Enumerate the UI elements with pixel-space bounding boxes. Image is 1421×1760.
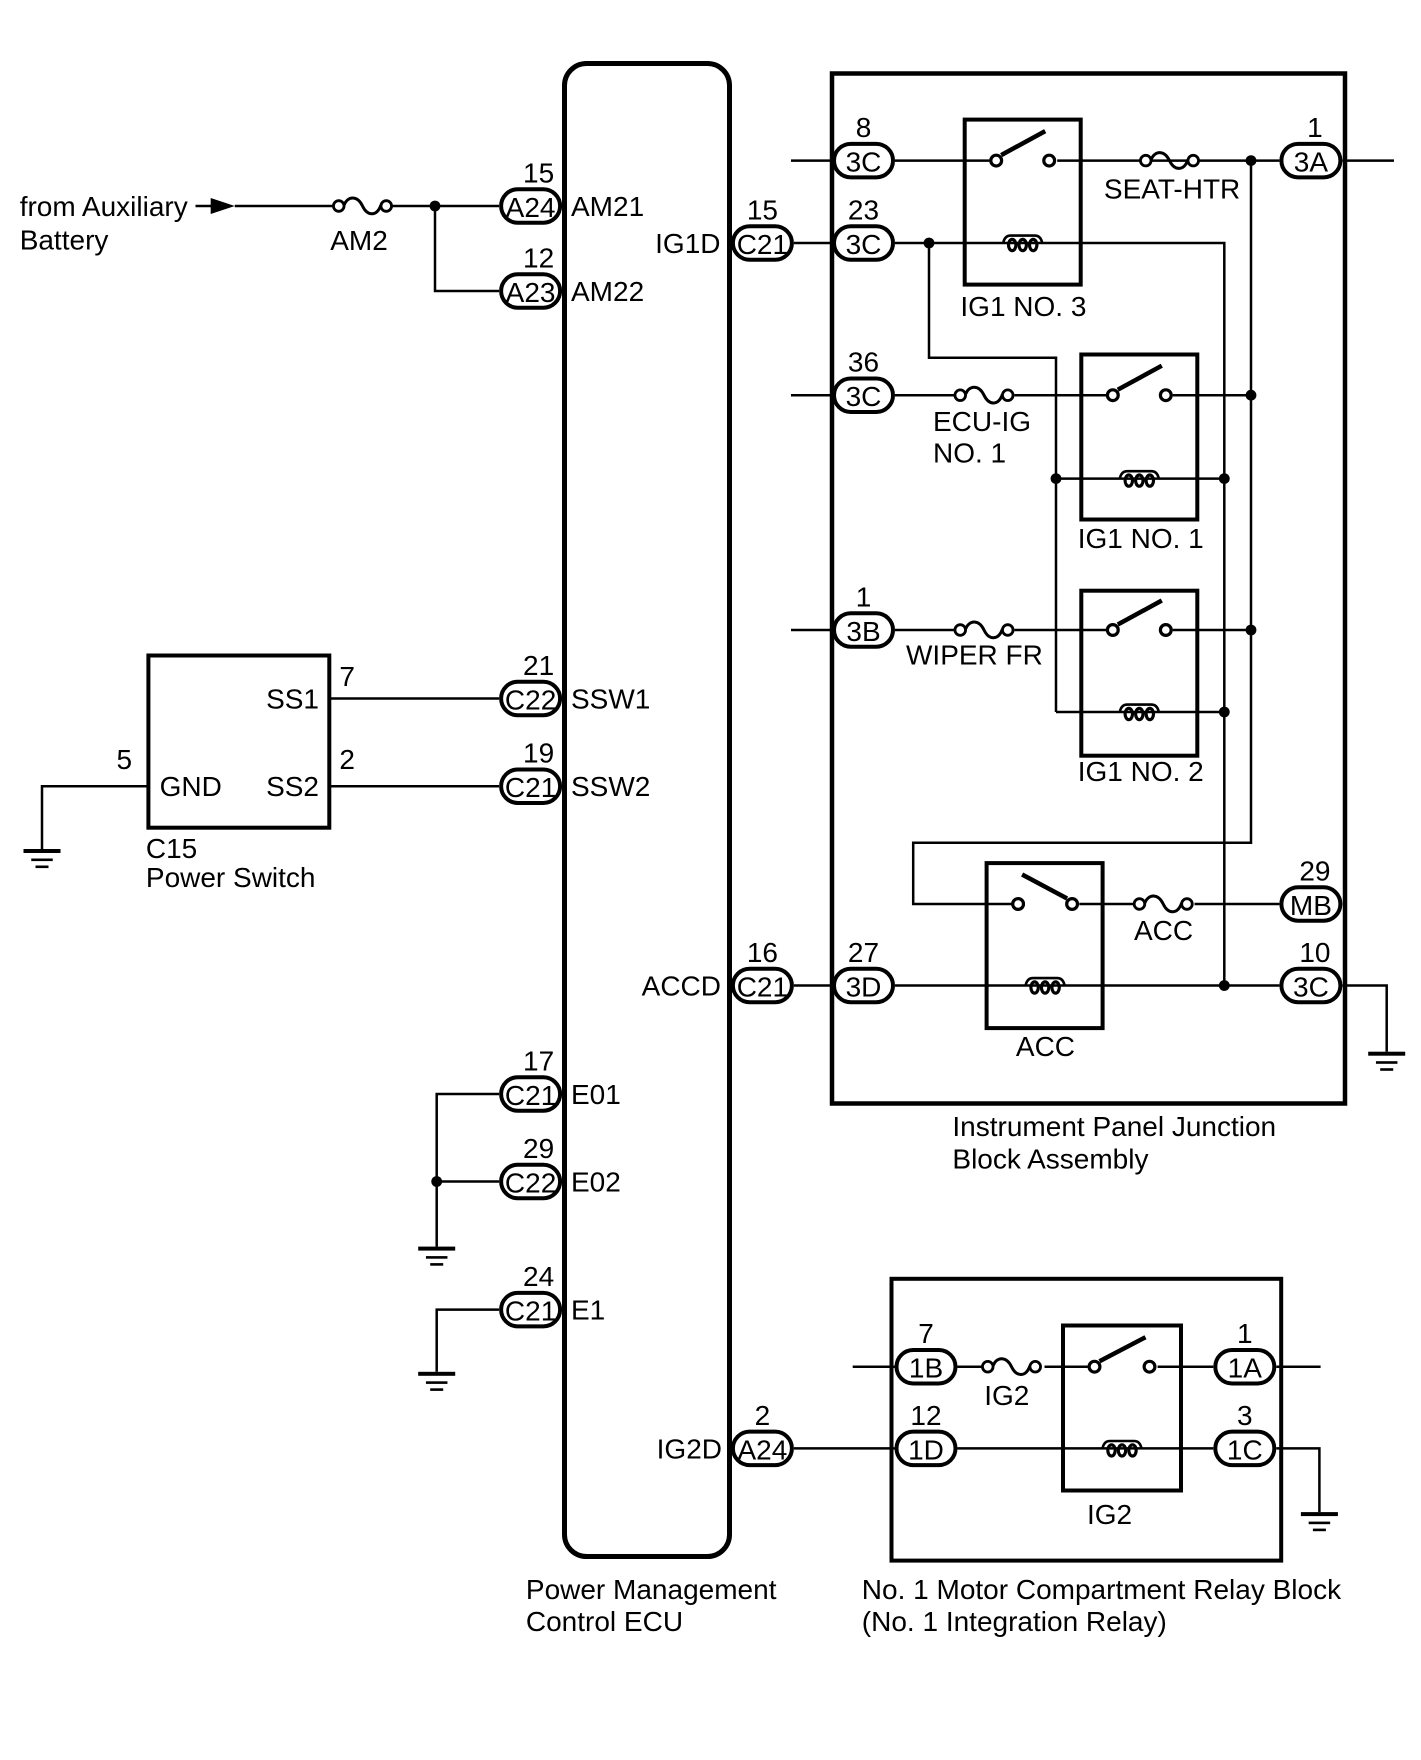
wire 1D to coil to 1C xyxy=(958,1447,1214,1450)
svg-text:Power Switch: Power Switch xyxy=(146,862,316,893)
instrument panel junction block box xyxy=(832,74,1345,1104)
svg-text:C21: C21 xyxy=(505,1080,556,1111)
svg-text:AM21: AM21 xyxy=(571,191,644,222)
relay IG1 NO.3 coil xyxy=(1003,236,1042,251)
svg-text:ACCD: ACCD xyxy=(642,971,721,1002)
svg-text:Instrument Panel Junction: Instrument Panel Junction xyxy=(952,1111,1276,1142)
svg-text:12: 12 xyxy=(523,243,554,274)
svg-text:A23: A23 xyxy=(506,277,556,308)
junction IG1 NO2 output xyxy=(1246,625,1257,636)
svg-text:C21: C21 xyxy=(505,1296,556,1327)
svg-text:E02: E02 xyxy=(571,1167,621,1198)
wire 3B to fuse WIPER FR xyxy=(895,629,954,632)
junction SEAT-HTR output xyxy=(1246,155,1257,166)
wire branch down to NO1 coil xyxy=(929,243,1056,712)
relay IG2 contacts xyxy=(1089,1337,1155,1372)
relay IG2 coil xyxy=(1103,1441,1142,1456)
wire IG1 NO1 out to vertical xyxy=(1173,394,1251,397)
svg-text:36: 36 xyxy=(848,347,879,378)
svg-text:(No. 1 Integration Relay): (No. 1 Integration Relay) xyxy=(862,1606,1167,1637)
junction coil chain at NO2 xyxy=(1219,707,1230,718)
connector C21 ACCD xyxy=(733,969,792,1003)
svg-text:15: 15 xyxy=(747,195,778,226)
connector 3C pin 23 xyxy=(834,226,893,260)
fuse IG2 xyxy=(982,1359,1040,1375)
svg-text:Battery: Battery xyxy=(20,225,109,256)
svg-text:3C: 3C xyxy=(846,381,882,412)
svg-text:1D: 1D xyxy=(908,1434,944,1465)
connector MB pin 29 xyxy=(1281,887,1340,921)
connector C22 E02 xyxy=(501,1165,560,1199)
svg-text:C21: C21 xyxy=(737,229,788,260)
relay IG1 NO.1 coil xyxy=(1120,471,1159,486)
wire IG1 NO2 out to vertical xyxy=(1173,629,1251,632)
wire switch-output vertical to ACC xyxy=(913,161,1251,904)
wire 3C36 to fuse ECU-IG xyxy=(895,394,954,397)
wire branch to connector A23 xyxy=(435,206,499,291)
svg-text:C21: C21 xyxy=(737,972,788,1003)
junction E01 E02 ground xyxy=(431,1176,442,1187)
connector 1B pin 7 xyxy=(897,1350,956,1384)
svg-text:15: 15 xyxy=(523,158,554,189)
wire relay to fuse SEAT-HTR to 3A xyxy=(1057,159,1279,162)
wire battery to fuse AM2 xyxy=(235,205,333,208)
svg-text:1: 1 xyxy=(1307,112,1323,143)
svg-text:IG2D: IG2D xyxy=(657,1433,722,1464)
wire 3D to ACC coil to 3C10 xyxy=(895,984,1279,987)
wire stub into 1B xyxy=(853,1365,895,1368)
svg-text:GND: GND xyxy=(160,771,222,802)
svg-text:5: 5 xyxy=(117,744,133,775)
svg-text:29: 29 xyxy=(1299,856,1330,887)
relay IG2 box xyxy=(1063,1326,1181,1491)
connector C21 SSW2 xyxy=(501,769,560,803)
svg-text:21: 21 xyxy=(523,650,554,681)
svg-text:SSW1: SSW1 xyxy=(571,684,650,715)
junction coil chain at ACC row xyxy=(1219,980,1230,991)
svg-text:7: 7 xyxy=(918,1318,934,1349)
svg-text:SSW2: SSW2 xyxy=(571,771,650,802)
wire NO1 coil row xyxy=(1056,477,1224,480)
svg-text:ACC: ACC xyxy=(1016,1031,1075,1062)
svg-text:3D: 3D xyxy=(846,972,882,1003)
ground power switch xyxy=(24,849,61,868)
fuse ECU-IG NO. 1 xyxy=(955,387,1013,403)
junction coil chain at NO1 xyxy=(1219,473,1230,484)
connector A23 AM22 xyxy=(501,274,560,308)
junction inner vertical at NO1 coil xyxy=(1051,473,1062,484)
svg-text:ACC: ACC xyxy=(1134,915,1193,946)
svg-text:3C: 3C xyxy=(1293,972,1329,1003)
svg-text:29: 29 xyxy=(523,1133,554,1164)
power management control ECU box xyxy=(565,64,730,1557)
relay ACC box xyxy=(987,863,1103,1028)
relay IG1 NO.1 contacts xyxy=(1107,366,1171,401)
wire 3C8 to relay contact xyxy=(895,159,989,162)
wire fuse to IG1 NO1 contact xyxy=(1015,394,1107,397)
svg-text:27: 27 xyxy=(848,937,879,968)
svg-text:No. 1 Motor Compartment Relay: No. 1 Motor Compartment Relay Block xyxy=(862,1574,1342,1605)
svg-text:3C: 3C xyxy=(846,229,882,260)
power switch C15 box xyxy=(148,656,329,828)
relay IG1 NO.3 contacts xyxy=(991,131,1055,166)
connector 1D pin 12 xyxy=(897,1432,956,1466)
svg-text:C22: C22 xyxy=(505,1168,556,1199)
relay IG1 NO.2 coil xyxy=(1120,705,1159,720)
connector 3D pin 27 xyxy=(834,969,893,1003)
svg-text:E1: E1 xyxy=(571,1295,605,1326)
connector C21 E01 xyxy=(501,1077,560,1111)
svg-text:IG1 NO. 3: IG1 NO. 3 xyxy=(960,291,1086,322)
svg-text:8: 8 xyxy=(856,112,872,143)
svg-text:2: 2 xyxy=(339,744,355,775)
svg-text:3B: 3B xyxy=(846,616,880,647)
svg-text:C22: C22 xyxy=(505,685,556,716)
wire E1 to ground xyxy=(437,1310,499,1372)
fuse AM2 xyxy=(333,198,391,214)
relay IG1 NO.2 box xyxy=(1081,591,1197,756)
junction IG1 NO1 output xyxy=(1246,390,1257,401)
wire ACCD C21 to 3D xyxy=(794,984,832,987)
svg-text:IG2: IG2 xyxy=(1087,1499,1132,1530)
relay IG1 NO.2 contacts xyxy=(1107,601,1171,636)
connector 3A pin 1 xyxy=(1281,144,1340,178)
relay IG1 NO.3 box xyxy=(965,120,1081,285)
svg-text:Power Management: Power Management xyxy=(526,1574,777,1605)
wire stub into 3C pin 8 xyxy=(791,159,832,162)
wire E01 to ground bus xyxy=(437,1094,499,1247)
svg-text:AM2: AM2 xyxy=(330,225,388,256)
svg-text:1A: 1A xyxy=(1228,1353,1263,1384)
svg-text:12: 12 xyxy=(910,1400,941,1431)
connector 3C pin 10 xyxy=(1281,969,1340,1003)
wire 3C10 to ground xyxy=(1342,986,1386,1052)
wire IG1D C21 to 3C23 xyxy=(794,242,832,245)
ground E01 E02 xyxy=(418,1247,455,1266)
svg-text:1: 1 xyxy=(856,582,872,613)
motor compartment relay block box xyxy=(892,1279,1282,1561)
arrow from auxiliary battery xyxy=(196,198,235,214)
ground 1C xyxy=(1301,1512,1338,1531)
svg-text:SS2: SS2 xyxy=(266,771,319,802)
svg-text:1C: 1C xyxy=(1227,1434,1263,1465)
connector 3B pin 1 xyxy=(834,613,893,647)
relay ACC coil xyxy=(1026,978,1065,993)
svg-text:16: 16 xyxy=(747,937,778,968)
svg-text:Block Assembly: Block Assembly xyxy=(952,1143,1148,1174)
connector 1C pin 3 xyxy=(1215,1432,1274,1466)
svg-text:17: 17 xyxy=(523,1046,554,1077)
relay IG1 NO.1 box xyxy=(1081,355,1197,520)
connector 3C pin 8 xyxy=(834,144,893,178)
svg-text:SS1: SS1 xyxy=(266,684,319,715)
wire SS2 to SSW2 xyxy=(329,785,499,788)
svg-text:IG1D: IG1D xyxy=(655,228,720,259)
wire fuse to IG1 NO2 contact xyxy=(1015,629,1107,632)
svg-text:NO. 1: NO. 1 xyxy=(933,437,1006,468)
connector C21 E1 xyxy=(501,1293,560,1327)
ground E1 xyxy=(418,1372,455,1391)
relay ACC contacts xyxy=(1013,875,1078,910)
svg-text:WIPER FR: WIPER FR xyxy=(906,640,1043,671)
svg-text:C15: C15 xyxy=(146,833,197,864)
svg-text:19: 19 xyxy=(523,738,554,769)
svg-text:from Auxiliary: from Auxiliary xyxy=(20,191,188,222)
svg-text:24: 24 xyxy=(523,1261,554,1292)
svg-text:IG1 NO. 1: IG1 NO. 1 xyxy=(1078,523,1204,554)
wire 3C23 to IG1 NO3 coil chain xyxy=(895,243,1224,986)
svg-text:1B: 1B xyxy=(909,1353,943,1384)
svg-text:IG2: IG2 xyxy=(984,1380,1029,1411)
wire fuse IG2 to relay contact xyxy=(1045,1365,1088,1368)
svg-text:C21: C21 xyxy=(505,772,556,803)
fuse WIPER FR xyxy=(955,622,1013,638)
connector C22 SSW1 xyxy=(501,682,560,716)
svg-text:2: 2 xyxy=(755,1400,771,1431)
svg-text:SEAT-HTR: SEAT-HTR xyxy=(1104,174,1240,205)
wire fuse ACC to MB xyxy=(1195,903,1280,906)
connector A24 IG2D xyxy=(733,1432,792,1466)
junction 3C23 branch xyxy=(924,238,935,249)
svg-text:Control ECU: Control ECU xyxy=(526,1606,683,1637)
wire ACC contact to fuse ACC xyxy=(1079,903,1134,906)
wire stub into 3B pin 1 xyxy=(791,629,832,632)
wire fuse AM2 to connector A24 xyxy=(393,205,500,208)
wire 1B to fuse IG2 xyxy=(958,1365,985,1368)
svg-text:E01: E01 xyxy=(571,1079,621,1110)
svg-text:3A: 3A xyxy=(1294,147,1329,178)
fuse ACC xyxy=(1134,896,1192,912)
connector A24 AM21 xyxy=(501,189,560,223)
svg-text:3C: 3C xyxy=(846,147,882,178)
svg-text:10: 10 xyxy=(1299,937,1330,968)
svg-text:A24: A24 xyxy=(737,1434,787,1465)
wire NO2 coil row xyxy=(1056,711,1224,714)
svg-text:7: 7 xyxy=(339,661,355,692)
wire IG2 relay out to 1A xyxy=(1158,1365,1214,1368)
wire E02 to ground bus xyxy=(437,1180,499,1183)
svg-text:23: 23 xyxy=(848,195,879,226)
connector 3C pin 36 xyxy=(834,378,893,412)
wire 1C to ground xyxy=(1276,1448,1319,1512)
fuse SEAT-HTR xyxy=(1140,153,1198,169)
svg-text:IG1 NO. 2: IG1 NO. 2 xyxy=(1078,756,1204,787)
connector C21 IG1D xyxy=(733,226,792,260)
wire stub out of 1A xyxy=(1276,1365,1320,1368)
wire stub out of 3A xyxy=(1342,159,1394,162)
svg-text:AM22: AM22 xyxy=(571,276,644,307)
svg-text:A24: A24 xyxy=(506,192,556,223)
wire GND to ground xyxy=(42,786,148,849)
svg-text:1: 1 xyxy=(1237,1318,1253,1349)
wire SS1 to SSW1 xyxy=(329,697,499,700)
svg-text:ECU-IG: ECU-IG xyxy=(933,406,1031,437)
connector 1A pin 1 xyxy=(1215,1350,1274,1384)
junction battery feed xyxy=(430,201,441,212)
wire stub into 3C pin 36 xyxy=(791,394,832,397)
svg-text:3: 3 xyxy=(1237,1400,1253,1431)
ground 3C10 xyxy=(1368,1052,1405,1071)
wire IG2D A24 to 1D xyxy=(794,1447,895,1450)
svg-text:MB: MB xyxy=(1290,890,1332,921)
